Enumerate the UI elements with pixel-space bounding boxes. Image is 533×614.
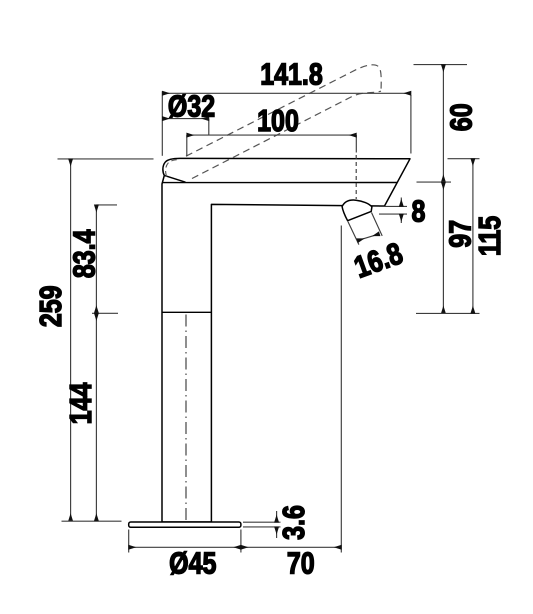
svg-text:83.4: 83.4 [67, 229, 101, 278]
raised handle dashed bottom edge [192, 91, 381, 178]
dimension 60 [414, 65, 468, 183]
base plate [129, 522, 241, 527]
dimension 115 [448, 159, 480, 314]
dimension 259 [58, 159, 154, 521]
svg-text:8: 8 [412, 194, 426, 228]
svg-text:60: 60 [444, 103, 478, 131]
svg-text:3.6: 3.6 [277, 505, 311, 540]
dimension D32 [162, 119, 208, 135]
dimension 141.8 [162, 91, 411, 156]
svg-text:Ø45: Ø45 [169, 546, 216, 580]
dimension 70 [241, 226, 341, 553]
svg-text:115: 115 [473, 216, 507, 256]
svg-text:259: 259 [34, 285, 68, 327]
svg-text:144: 144 [64, 382, 98, 424]
raised handle dashed cap arc [166, 160, 180, 177]
svg-text:70: 70 [287, 546, 315, 580]
body joint seam [162, 311, 211, 313]
aerator nozzle [342, 200, 372, 221]
svg-text:100: 100 [257, 104, 299, 138]
dimension 8 [379, 198, 407, 224]
spout lower seam [162, 182, 397, 184]
faucet body outline [162, 158, 410, 522]
handle wedge seam [164, 175, 185, 182]
dimension 97 [416, 182, 480, 313]
dimension D45 [129, 530, 241, 553]
dimension 83.4 [92, 205, 118, 313]
raised handle dashed top edge [186, 65, 381, 156]
column centerline [185, 315, 187, 521]
svg-text:141.8: 141.8 [260, 57, 323, 91]
dimension 100 [187, 135, 356, 199]
dimension 16.8 [348, 213, 382, 245]
dimension 3.6 [243, 511, 281, 538]
svg-text:Ø32: Ø32 [168, 89, 215, 123]
dimension 144 [95, 313, 97, 521]
